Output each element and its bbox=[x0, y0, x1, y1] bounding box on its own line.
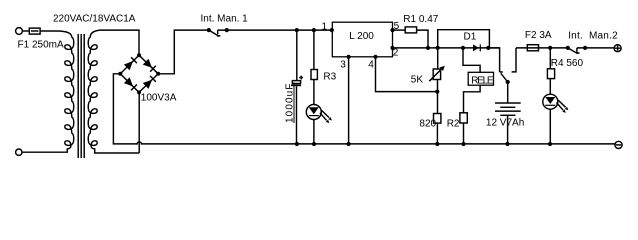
svg-text:D1: D1 bbox=[464, 32, 477, 43]
svg-text:R3: R3 bbox=[323, 72, 336, 83]
svg-text:12 V7Ah: 12 V7Ah bbox=[486, 117, 524, 128]
svg-text:R4 560: R4 560 bbox=[551, 58, 584, 69]
svg-text:Int. Man.2: Int. Man.2 bbox=[568, 31, 618, 42]
svg-text:R1 0.47: R1 0.47 bbox=[403, 14, 438, 25]
svg-text:2: 2 bbox=[393, 47, 399, 58]
svg-text:F1 250mA: F1 250mA bbox=[18, 40, 64, 51]
svg-text:820: 820 bbox=[419, 118, 436, 129]
svg-text:R2: R2 bbox=[447, 118, 460, 129]
svg-text:4: 4 bbox=[368, 59, 374, 70]
svg-text:5K: 5K bbox=[411, 75, 424, 86]
svg-text:220VAC/18VAC1A: 220VAC/18VAC1A bbox=[53, 13, 136, 24]
svg-text:100V3A: 100V3A bbox=[141, 93, 177, 104]
svg-text:5: 5 bbox=[394, 21, 400, 32]
svg-text:Int. Man. 1: Int. Man. 1 bbox=[201, 14, 249, 25]
svg-text:F2 3A: F2 3A bbox=[525, 30, 552, 41]
svg-text:3: 3 bbox=[340, 59, 346, 70]
svg-text:L 200: L 200 bbox=[349, 31, 374, 42]
svg-text:1: 1 bbox=[322, 22, 328, 33]
svg-text:1000uF: 1000uF bbox=[285, 82, 296, 123]
svg-text:RELE: RELE bbox=[471, 76, 494, 87]
